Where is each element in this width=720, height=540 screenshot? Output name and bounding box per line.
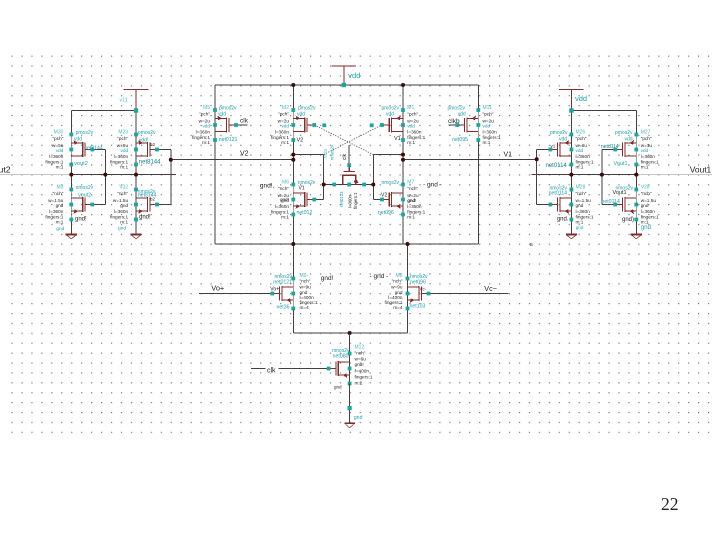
M8 pin G bbox=[427, 292, 431, 296]
M2 pin S bbox=[291, 138, 295, 142]
junction V2 b bbox=[291, 158, 295, 162]
node v11 bbox=[134, 108, 138, 112]
svg-text:fingers:1: fingers:1 bbox=[576, 159, 594, 164]
svg-text:l=360n: l=360n bbox=[576, 209, 591, 214]
wire bbox=[635, 111, 637, 136]
wire bbox=[635, 220, 637, 235]
svg-text:gnd!: gnd! bbox=[408, 198, 417, 203]
svg-text:w=5u: w=5u bbox=[117, 143, 129, 148]
svg-text:gnd: gnd bbox=[354, 415, 363, 421]
M6 pin G bbox=[312, 198, 316, 202]
svg-text:v1: v1 bbox=[551, 143, 556, 148]
svg-text:B: B bbox=[530, 242, 533, 247]
wire tail node bbox=[293, 332, 407, 334]
svg-text:fingers:1: fingers:1 bbox=[271, 135, 289, 140]
svg-text:b2: b2 bbox=[150, 142, 156, 147]
svg-text:Vc-: Vc- bbox=[420, 286, 427, 291]
svg-text:l=360n: l=360n bbox=[196, 129, 211, 134]
svg-text:vout2: vout2 bbox=[78, 193, 91, 199]
svg-text:Vo+: Vo+ bbox=[211, 284, 224, 293]
wire M9 source down bbox=[292, 309, 294, 334]
wire net V2 to latch bbox=[171, 159, 293, 161]
junction net8144 bbox=[134, 173, 138, 177]
wire M7 gate drop bbox=[372, 185, 374, 200]
M11 pin B bbox=[476, 123, 480, 127]
M26 pin B bbox=[570, 148, 574, 152]
svg-text:fingers:1: fingers:1 bbox=[641, 159, 659, 164]
transistor M9 nmos2v (input) bbox=[272, 279, 293, 309]
wire bottom rail bbox=[215, 243, 478, 245]
junction Vout1 bbox=[634, 173, 638, 177]
svg-text:"pch": "pch" bbox=[117, 136, 128, 141]
M2 pin D bbox=[291, 108, 295, 112]
wire cross-couple inner col bbox=[536, 150, 538, 205]
transistor M5 pmos2v (precharge) bbox=[215, 110, 236, 140]
svg-text:m:1: m:1 bbox=[120, 165, 128, 170]
svg-text:ut2: ut2 bbox=[0, 164, 11, 174]
svg-text:vdd: vdd bbox=[348, 71, 360, 80]
junction top rail right bbox=[401, 83, 405, 87]
svg-text:gnd): gnd) bbox=[622, 217, 634, 223]
svg-text:gnd!: gnd! bbox=[75, 217, 87, 223]
wire top vdd rail bbox=[215, 84, 478, 86]
svg-text:gnd: gnd bbox=[118, 226, 126, 232]
svg-text:w=9u: w=9u bbox=[300, 285, 312, 290]
wire bbox=[135, 111, 137, 136]
svg-text:M25: M25 bbox=[323, 149, 328, 158]
svg-text:"nch": "nch" bbox=[407, 186, 418, 191]
M7 2u parameter labels bbox=[407, 179, 425, 219]
svg-text:w=6u: w=6u bbox=[576, 143, 588, 148]
svg-text:vout2: vout2 bbox=[74, 161, 87, 167]
svg-text:net36: net36 bbox=[277, 305, 290, 311]
svg-text:gnd: gnd bbox=[641, 225, 651, 231]
svg-text:net0114: net0114 bbox=[546, 163, 568, 169]
svg-text:w=1.5u: w=1.5u bbox=[576, 198, 592, 203]
wire M5 gate clk stub bbox=[236, 124, 248, 126]
M8 pin B bbox=[406, 292, 410, 296]
wire M30 gate bbox=[92, 149, 105, 151]
svg-text:pmos2v: pmos2v bbox=[550, 130, 568, 136]
M28 pin G bbox=[549, 203, 553, 207]
M25 pin D bbox=[362, 183, 366, 187]
svg-text:m:1: m:1 bbox=[120, 220, 128, 225]
M1 pin B bbox=[401, 123, 405, 127]
svg-text:net8144: net8144 bbox=[84, 145, 103, 151]
svg-text:l=360n: l=360n bbox=[49, 209, 64, 214]
ground M3 bbox=[66, 235, 77, 239]
svg-text:"pch": "pch" bbox=[199, 112, 210, 117]
svg-text:V1: V1 bbox=[504, 151, 513, 158]
svg-text:netd114: netd114 bbox=[601, 144, 619, 150]
svg-text:"pch": "pch" bbox=[278, 112, 289, 117]
M3 pin D bbox=[69, 188, 73, 192]
wire M1 drain to rail bbox=[402, 85, 404, 110]
M9 pin S bbox=[291, 307, 295, 311]
wire V28 gate bbox=[602, 204, 615, 206]
svg-text:net012: net012 bbox=[297, 210, 313, 216]
transistor M8 nmos2v (input) bbox=[408, 279, 429, 309]
M27 pin S bbox=[634, 163, 638, 167]
svg-text:V32: V32 bbox=[119, 184, 128, 190]
wire M27 gate bbox=[602, 149, 615, 151]
wire bbox=[70, 165, 72, 191]
svg-text:vdd: vdd bbox=[641, 148, 649, 153]
junction equalizer right bbox=[371, 183, 375, 187]
svg-text:net096: net096 bbox=[410, 280, 426, 286]
svg-text:fingers:1: fingers:1 bbox=[192, 135, 210, 140]
M26 pin D bbox=[570, 133, 574, 137]
wire tail to M12 bbox=[349, 333, 351, 354]
M30 pin G bbox=[90, 148, 94, 152]
wire left cell vdd rail bbox=[71, 110, 136, 112]
ground V28 bbox=[631, 235, 642, 239]
svg-text:gnd: gnd bbox=[120, 203, 128, 208]
M26 pin G bbox=[549, 148, 553, 152]
wire M23 gate bbox=[157, 149, 171, 151]
svg-text:f=400n: f=400n bbox=[355, 369, 370, 374]
wire bbox=[70, 111, 72, 136]
svg-text:fingers:1: fingers:1 bbox=[45, 214, 63, 219]
wire Vout1 to right edge bbox=[636, 174, 712, 176]
svg-text:w=2u: w=2u bbox=[407, 118, 419, 123]
svg-text:gnd!,: gnd!, bbox=[260, 183, 275, 190]
svg-text:- gnd -: - gnd - bbox=[370, 273, 389, 280]
transistor M30 pmos2v bbox=[71, 135, 92, 165]
svg-text:clk: clk bbox=[342, 153, 348, 160]
wire box to M8 bbox=[407, 244, 409, 279]
svg-text:gnd!: gnd! bbox=[355, 362, 364, 367]
wire V2 node horizontal bbox=[293, 154, 323, 156]
M27 pin B bbox=[634, 148, 638, 152]
wire cross-couple colB bbox=[170, 150, 172, 205]
svg-text:"nch": "nch" bbox=[53, 191, 64, 196]
svg-text:gnd: gnd bbox=[576, 225, 584, 230]
svg-text:l=360n: l=360n bbox=[49, 154, 64, 159]
svg-text:vdd: vdd bbox=[218, 111, 226, 117]
wire cross-couple diagonal M2 gate to V1 bbox=[314, 125, 373, 155]
svg-text:fingers:1: fingers:1 bbox=[45, 159, 63, 164]
svg-text:M26: M26 bbox=[576, 129, 586, 135]
svg-text:m=4: m=4 bbox=[393, 305, 403, 310]
svg-text:nmos2v: nmos2v bbox=[330, 144, 335, 160]
wire M7 source to rail bbox=[402, 215, 404, 245]
wire M6 source to rail bbox=[292, 215, 294, 245]
wire clk stub to M25 gate bbox=[348, 145, 350, 165]
junction net0114 bbox=[569, 173, 573, 177]
M3 1.5u parameter labels bbox=[45, 184, 63, 224]
svg-text:fingers:1: fingers:1 bbox=[271, 209, 289, 214]
M1 2u parameter labels bbox=[407, 105, 425, 145]
svg-text:"pch": "pch" bbox=[483, 112, 494, 117]
svg-text:fingers:1: fingers:1 bbox=[483, 135, 501, 140]
M8 pin D bbox=[406, 277, 410, 281]
wire M26 gate bbox=[537, 149, 551, 151]
svg-text:fingers:1: fingers:1 bbox=[355, 375, 373, 380]
svg-text:"pch": "pch" bbox=[576, 136, 587, 141]
wire gnd stub bbox=[349, 410, 351, 424]
svg-text:m:1: m:1 bbox=[483, 140, 491, 145]
M12 params parameter labels bbox=[355, 345, 373, 386]
svg-text:M27: M27 bbox=[641, 129, 651, 135]
wire equalizer bbox=[324, 184, 374, 186]
wire M8 source down bbox=[407, 309, 409, 334]
M7 pin B bbox=[401, 198, 405, 202]
M7 pin D bbox=[401, 183, 405, 187]
svg-text:gnd!: gnd! bbox=[321, 275, 334, 282]
svg-text:M1: M1 bbox=[407, 105, 414, 111]
svg-text:clk: clk bbox=[240, 117, 249, 124]
gnd pin M12 bbox=[348, 406, 352, 410]
svg-text:vdd: vdd bbox=[559, 137, 567, 143]
wire M2 drain to rail bbox=[292, 85, 294, 110]
ground M28 bbox=[566, 235, 577, 239]
svg-text:nmos2v: nmos2v bbox=[76, 185, 94, 191]
wire equalizer left vertical bbox=[323, 155, 325, 185]
svg-text:Vout1: Vout1 bbox=[614, 161, 628, 167]
M30 pin D bbox=[69, 133, 73, 137]
junction V2 a bbox=[291, 153, 295, 157]
svg-text:M5: M5 bbox=[203, 105, 210, 111]
svg-text:"nch": "nch" bbox=[392, 279, 403, 284]
M27 pin D bbox=[634, 133, 638, 137]
svg-text:net103: net103 bbox=[410, 304, 426, 310]
svg-text:M6: M6 bbox=[282, 179, 289, 185]
svg-text:w=5u: w=5u bbox=[52, 143, 64, 148]
svg-text:vdd!: vdd! bbox=[139, 137, 148, 143]
svg-text:l=360n: l=360n bbox=[407, 129, 422, 134]
svg-text:M30: M30 bbox=[54, 129, 64, 135]
svg-text:gnd: gnd bbox=[56, 203, 64, 208]
svg-text:vdd: vdd bbox=[121, 148, 129, 153]
svg-text:l=360n: l=360n bbox=[114, 209, 129, 214]
junction bbox=[600, 173, 604, 177]
svg-text:w=1.5u: w=1.5u bbox=[641, 198, 657, 203]
svg-text:gnd!: gnd! bbox=[280, 197, 289, 202]
svg-text:vdd: vdd bbox=[576, 148, 584, 153]
svg-text:"nch": "nch" bbox=[641, 191, 652, 196]
junction bottom rail right bbox=[406, 242, 410, 246]
svg-text:w=3u: w=3u bbox=[641, 143, 653, 148]
M23 5u parameter labels bbox=[110, 129, 128, 169]
junction top rail left bbox=[291, 83, 295, 87]
svg-text:l=360n: l=360n bbox=[407, 204, 422, 209]
svg-text:fingers:1: fingers:1 bbox=[110, 214, 128, 219]
M30 5u parameter labels bbox=[45, 129, 63, 169]
svg-text:vdd: vdd bbox=[483, 124, 491, 129]
transistor M2 pmos2v bbox=[293, 110, 314, 140]
M6 pin S bbox=[291, 213, 295, 217]
wire cross-couple diagonal V2 to M1 gate bbox=[324, 125, 382, 155]
svg-text:"pch": "pch" bbox=[641, 136, 652, 141]
M26 6u parameter labels bbox=[576, 129, 594, 169]
transistor M6 nmos2v bbox=[293, 185, 314, 215]
wire M6 gate bbox=[314, 199, 323, 201]
M27 3u parameter labels bbox=[641, 129, 659, 169]
svg-text:"nch": "nch" bbox=[355, 351, 366, 356]
svg-text:vdd: vdd bbox=[281, 124, 289, 129]
M8 params parameter labels bbox=[385, 273, 403, 310]
wire bbox=[135, 220, 137, 235]
vdd supply symbol right cell bbox=[559, 90, 584, 111]
wire right edge upper bbox=[477, 85, 479, 110]
M6 2u parameter labels bbox=[271, 179, 289, 219]
V32 pin D bbox=[134, 188, 138, 192]
M5 pin S bbox=[213, 138, 217, 142]
wire right cell vdd rail bbox=[571, 110, 636, 112]
wire Vout2 to left edge bbox=[0, 174, 71, 176]
wire bbox=[70, 220, 72, 235]
V28 1.5u parameter labels bbox=[641, 184, 659, 224]
svg-text:gnd.: gnd. bbox=[557, 217, 569, 223]
junction equalizer left bbox=[322, 183, 326, 187]
svg-text:vdd: vdd bbox=[624, 137, 632, 143]
svg-text:vdd: vdd bbox=[297, 111, 305, 117]
svg-text:V1: V1 bbox=[394, 136, 401, 142]
svg-text:vdd: vdd bbox=[74, 137, 82, 143]
svg-text:vdd: vdd bbox=[386, 111, 394, 117]
wire bbox=[570, 165, 572, 191]
M3 pin G bbox=[90, 203, 94, 207]
svg-text:net096: net096 bbox=[378, 210, 394, 216]
V32 1.5u parameter labels bbox=[110, 184, 128, 224]
svg-text:Vc−: Vc− bbox=[484, 284, 497, 293]
svg-text:m:1: m:1 bbox=[56, 165, 64, 170]
M5 pin B bbox=[213, 123, 217, 127]
M1 pin G bbox=[380, 123, 384, 127]
junction tail bbox=[348, 331, 352, 335]
M1 pin D bbox=[401, 108, 405, 112]
svg-text:"nch": "nch" bbox=[300, 279, 311, 284]
svg-text:net095: net095 bbox=[452, 137, 468, 143]
transistor V28 nmos2v bbox=[615, 190, 636, 220]
M11 pin G bbox=[455, 123, 459, 127]
V32 pin B bbox=[134, 203, 138, 207]
svg-text:net0123: net0123 bbox=[339, 191, 344, 207]
transistor M3 nmos2v bbox=[71, 190, 92, 220]
V28 pin S bbox=[634, 218, 638, 222]
junction V2 bbox=[169, 158, 173, 162]
svg-text:M3: M3 bbox=[56, 184, 63, 190]
wire cross-couple outer col bbox=[601, 150, 603, 205]
M2 pin B bbox=[291, 123, 295, 127]
svg-text:w=2u: w=2u bbox=[199, 118, 211, 123]
vdd supply symbol (top) bbox=[332, 66, 357, 87]
M3 pin S bbox=[69, 218, 73, 222]
junction V1 b bbox=[401, 158, 405, 162]
M2 pin G bbox=[312, 123, 316, 127]
junction V1 right bbox=[535, 157, 539, 161]
wire left edge upper bbox=[214, 85, 216, 110]
svg-text:fingers:1: fingers:1 bbox=[353, 192, 358, 209]
M25 pin B bbox=[347, 183, 351, 187]
svg-text:net0121: net0121 bbox=[219, 137, 238, 143]
M25 pin S bbox=[332, 183, 336, 187]
M23 pin B bbox=[134, 148, 138, 152]
V32 pin S bbox=[134, 218, 138, 222]
svg-text:"pch": "pch" bbox=[53, 136, 64, 141]
M23 pin S bbox=[134, 163, 138, 167]
svg-text:m:1: m:1 bbox=[407, 140, 415, 145]
svg-text:"nch": "nch" bbox=[576, 191, 587, 196]
transistor M25 nmos2v (equalizer, rotated) bbox=[334, 165, 364, 184]
V28 pin B bbox=[634, 203, 638, 207]
V28 pin D bbox=[634, 188, 638, 192]
M6 pin B bbox=[291, 198, 295, 202]
svg-text:- gnd -: - gnd - bbox=[423, 182, 442, 189]
svg-text:"pch": "pch" bbox=[407, 112, 418, 117]
svg-text:v11: v11 bbox=[120, 97, 128, 103]
svg-text:Vo+: Vo+ bbox=[270, 286, 279, 292]
svg-text:fingers:1: fingers:1 bbox=[407, 135, 425, 140]
M5 pin G bbox=[234, 123, 238, 127]
wire V32 gate bbox=[157, 204, 171, 206]
wire box to M9 bbox=[292, 244, 294, 279]
svg-text:vdd: vdd bbox=[458, 111, 466, 117]
M9 pin G bbox=[270, 292, 274, 296]
svg-text:w=9u: w=9u bbox=[391, 285, 403, 290]
svg-text:gnd: gnd bbox=[56, 226, 64, 232]
wire end node at diagonal left bbox=[322, 123, 326, 127]
svg-text:M2: M2 bbox=[282, 105, 289, 111]
transistor M27 pmos2v bbox=[615, 135, 636, 165]
transistor M11 pmos2v (precharge) bbox=[457, 110, 478, 140]
svg-text:net080: net080 bbox=[333, 354, 349, 360]
M28 pin D bbox=[570, 188, 574, 192]
svg-text:V28: V28 bbox=[641, 184, 650, 190]
svg-text:gnd: gnd bbox=[641, 203, 649, 208]
svg-text:nmos2v: nmos2v bbox=[381, 180, 399, 186]
clk label background bbox=[266, 366, 279, 373]
svg-text:net0114: net0114 bbox=[602, 199, 620, 205]
svg-text:l=360n: l=360n bbox=[348, 194, 353, 208]
junction vout2 bbox=[69, 173, 73, 177]
svg-text:fingers:1: fingers:1 bbox=[576, 214, 594, 219]
svg-text:V2: V2 bbox=[381, 192, 387, 198]
svg-text:M28: M28 bbox=[576, 184, 586, 190]
svg-text:l=360n: l=360n bbox=[576, 154, 591, 159]
wire M6 gate drop bbox=[323, 185, 325, 200]
M12 pin B bbox=[348, 367, 352, 371]
M12 pin D bbox=[348, 352, 352, 356]
wire cross-couple colA bbox=[104, 150, 106, 205]
svg-text:V2: V2 bbox=[240, 151, 249, 158]
M2 2u parameter labels bbox=[271, 105, 289, 145]
svg-text:m:1: m:1 bbox=[407, 215, 415, 220]
svg-text:gnd: gnd bbox=[334, 385, 342, 390]
svg-text:fingers:1: fingers:1 bbox=[407, 209, 425, 214]
svg-text:w=1.5u: w=1.5u bbox=[113, 198, 129, 203]
wire bbox=[570, 220, 572, 235]
svg-text:V2: V2 bbox=[297, 137, 304, 143]
svg-text:vdd: vdd bbox=[575, 94, 587, 103]
node vdd right cell bbox=[569, 108, 573, 112]
wire M2-M6 column bbox=[292, 140, 294, 185]
M3 pin B bbox=[69, 203, 73, 207]
svg-text:m:1: m:1 bbox=[641, 165, 649, 170]
svg-text:22: 22 bbox=[661, 494, 679, 514]
wire M3 gate bbox=[92, 204, 105, 206]
M30 pin S bbox=[69, 163, 73, 167]
wire Vc- input bbox=[429, 293, 509, 295]
wire M11 gate clkb stub bbox=[449, 124, 458, 126]
svg-text:m:1: m:1 bbox=[281, 140, 289, 145]
M23 pin G bbox=[155, 148, 159, 152]
M28 pin S bbox=[570, 218, 574, 222]
svg-text:m:1: m:1 bbox=[202, 140, 210, 145]
M9 pin B bbox=[291, 292, 295, 296]
svg-text:M23: M23 bbox=[118, 129, 128, 135]
